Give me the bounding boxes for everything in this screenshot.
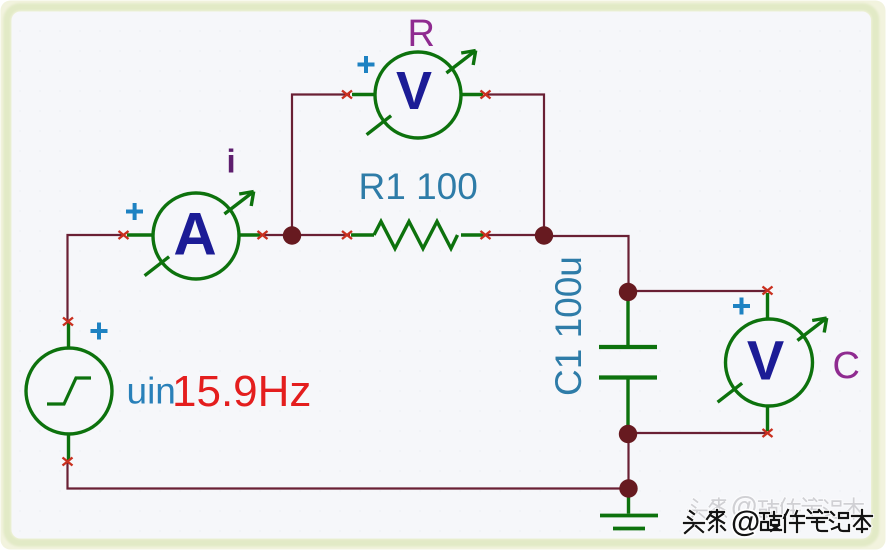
- svg-text:V: V: [396, 61, 432, 121]
- node GND junction: [619, 479, 637, 497]
- resistor R1: [351, 222, 484, 249]
- wire: node A up to voltmeter U2 left: [292, 95, 350, 237]
- svg-text:15.9Hz: 15.9Hz: [172, 367, 311, 416]
- pin mark: resistor right: [481, 231, 491, 239]
- node C-top (capacitor top junction): [619, 283, 637, 301]
- svg-text:@: @: [731, 506, 760, 539]
- ground: [600, 489, 658, 529]
- pin mark: resistor left: [342, 231, 352, 239]
- wire: voltmeter U2 right down to node B: [486, 95, 545, 237]
- wire: capacitor bottom node down to ground node: [627, 433, 629, 489]
- svg-text:R1 100: R1 100: [359, 166, 478, 207]
- pin mark: voltmeter U3 top: [763, 287, 773, 295]
- pin mark: voltmeter U2 left: [342, 91, 352, 99]
- wire: resistor right to node B: [486, 234, 545, 236]
- pin mark: voltmeter U3 bottom: [763, 429, 773, 437]
- voltmeter U2 (across R1): [352, 51, 483, 139]
- svg-text:uin: uin: [127, 371, 176, 412]
- capacitor C1: [599, 292, 657, 434]
- plus sign of ammeter: [126, 203, 143, 220]
- wire: voltmeter U3 bottom to capacitor bottom node: [629, 432, 768, 434]
- svg-text:C1 100u: C1 100u: [548, 256, 589, 396]
- pin mark: voltmeter U2 right: [481, 91, 491, 99]
- plus sign of voltmeter U3: [733, 298, 750, 315]
- svg-text:C: C: [833, 345, 860, 387]
- pin mark: source top: [63, 318, 73, 326]
- wire: node B to capacitor top node: [544, 236, 629, 292]
- svg-text:R: R: [408, 13, 435, 55]
- watermark: fake hanzi glyph paths (tou tiao ying jian bi ji ben): [684, 510, 872, 533]
- node B (resistor right junction): [535, 226, 553, 244]
- node A (ammeter/resistor/voltmeter junction): [283, 226, 301, 244]
- pin mark: ammeter right: [258, 231, 268, 239]
- watermark faint gray copy: [688, 491, 863, 521]
- wire: bottom return run from source to ground node: [68, 462, 629, 489]
- ammeter U1: [127, 192, 261, 280]
- node C-bottom (capacitor bottom junction): [619, 425, 637, 443]
- watermark black text: tou tiao @ ying jian bi ji ben: [684, 506, 872, 539]
- plus sign of source: [91, 323, 108, 340]
- voltmeter U3 (across C1): [718, 293, 827, 431]
- pin mark: source bottom: [63, 458, 73, 466]
- wire: ammeter right to resistor left: [262, 234, 350, 236]
- pin mark: ammeter left: [119, 231, 129, 239]
- svg-text:i: i: [227, 143, 236, 180]
- svg-text:A: A: [173, 201, 216, 268]
- svg-text:V: V: [747, 329, 784, 392]
- wire: capacitor top node to voltmeter U3 top: [629, 290, 768, 292]
- source V1 uin: [26, 322, 112, 461]
- wire: source top to ammeter left: [68, 235, 124, 321]
- plus sign of voltmeter U2: [358, 56, 375, 73]
